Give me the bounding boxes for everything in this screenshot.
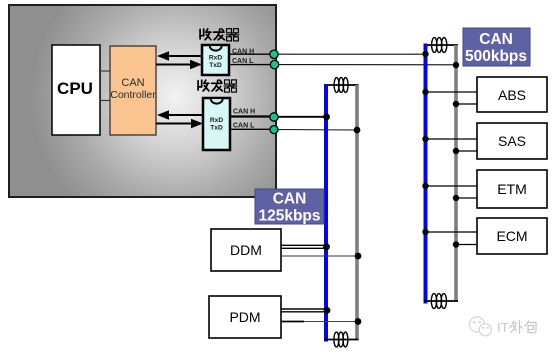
label CAN 125kbps: [255, 189, 324, 224]
svg-text:Controller: Controller: [110, 89, 156, 101]
label 收发器 (transceiver 1): [200, 29, 239, 41]
svg-text:125kbps: 125kbps: [258, 208, 320, 225]
junction SAS CANH on blue bus: [422, 136, 428, 142]
svg-text:ECM: ECM: [496, 228, 527, 244]
svg-text:500kbps: 500kbps: [465, 48, 527, 65]
connector dot green t2 CANL: [270, 126, 278, 134]
wire CANL t2 to 125k bus: [230, 128, 274, 130]
svg-text:RxD: RxD: [209, 55, 222, 62]
bus CAN_L 500k (gray): [454, 45, 458, 301]
wire ETM CANL: [456, 197, 477, 199]
wire DDM CANH (pair): [281, 244, 327, 246]
junction ETM CANL on gray bus: [453, 195, 459, 201]
connector dot green t2 CANH: [270, 113, 278, 121]
termination resistor RT1 (coil): [432, 38, 447, 53]
wire SAS CANL: [456, 150, 477, 152]
connector dot green t1 CANL: [270, 60, 278, 68]
label 收发器 (transceiver 2): [198, 80, 237, 92]
svg-text:CAN L: CAN L: [233, 122, 255, 129]
junction ABS CANH on blue bus: [422, 89, 428, 95]
ECU module box: [9, 5, 276, 197]
wire ECM CANL: [456, 244, 477, 246]
svg-text:CAN H: CAN H: [233, 108, 255, 115]
label CAN 500kbps: [463, 28, 530, 66]
node ETM: [477, 170, 547, 208]
wire TxD arrow to transceiver 1: [156, 60, 202, 70]
junction SAS CANL on gray bus: [453, 148, 459, 154]
junction ABS CANL on gray bus: [453, 101, 459, 107]
wire ECM CANH: [426, 231, 478, 233]
svg-text:CPU: CPU: [57, 79, 93, 98]
top rail 500k: [424, 44, 458, 46]
svg-text:CAN: CAN: [273, 191, 307, 208]
wire ABS CANH: [426, 91, 478, 93]
bottom rail 500k: [424, 300, 458, 302]
bottom rail 125k: [325, 339, 359, 341]
CAN controller U1: [110, 46, 156, 135]
node DDM: [211, 229, 281, 271]
svg-text:IT: IT: [497, 320, 509, 335]
svg-text:DDM: DDM: [230, 242, 262, 258]
bus CAN_H 500k (blue): [424, 44, 428, 304]
svg-text:ABS: ABS: [498, 87, 526, 103]
svg-text:RxD: RxD: [210, 117, 223, 124]
termination resistor RT3 (coil): [334, 78, 348, 93]
watermark logo: [469, 317, 491, 336]
wire DDM CANL: [281, 255, 358, 257]
transceiver 2: [203, 98, 230, 150]
top rail 125k: [325, 84, 359, 86]
junction t1 CANH on blue bus: [422, 51, 428, 57]
junction t1 CANL on gray bus: [453, 62, 459, 68]
svg-text:SAS: SAS: [498, 133, 526, 149]
wire ETM CANH: [426, 185, 478, 187]
junction ETM CANH on blue bus: [422, 183, 428, 189]
wire CANL t1 to 500k bus: [229, 64, 274, 66]
junction ECM CANH on blue bus: [422, 229, 428, 235]
connector dot green t1 CANH: [270, 50, 278, 58]
wire RxD arrow to controller (transceiver 2): [157, 110, 203, 120]
node ECM: [477, 218, 547, 254]
transceiver 1: [202, 45, 229, 75]
wire CPU-controller upper: [100, 70, 110, 72]
wire ABS CANL: [456, 103, 477, 105]
node ABS: [477, 77, 547, 112]
svg-text:CAN: CAN: [121, 77, 144, 89]
svg-text:TxD: TxD: [210, 125, 223, 132]
svg-text:TxD: TxD: [209, 62, 222, 69]
junction PDM CANH on blue bus: [324, 307, 331, 314]
junction PDM CANL on gray bus: [355, 318, 362, 325]
wire RxD arrow to controller (transceiver 1): [157, 51, 202, 61]
node SAS: [477, 123, 547, 159]
junction DDM CANH on blue bus: [323, 243, 330, 250]
wire PDM CANL: [281, 321, 304, 323]
wire CANH t1 to 500k bus: [229, 53, 274, 55]
termination resistor RT2 (coil): [431, 294, 446, 309]
wire PDM CANH (pair): [281, 308, 327, 310]
termination resistor RT4 (coil): [334, 332, 348, 347]
bus CAN_H 125k (blue): [324, 84, 328, 342]
wire CANH t2 to 125k bus: [230, 115, 274, 117]
wire CPU-controller lower: [100, 100, 110, 102]
junction t2 CANH on blue bus: [323, 113, 330, 120]
junction DDM CANL on gray bus: [355, 253, 362, 260]
node PDM: [209, 296, 281, 338]
svg-text:CAN: CAN: [479, 31, 513, 48]
junction t2 CANL on gray bus: [354, 127, 361, 134]
bus CAN_L 125k (gray): [355, 85, 359, 340]
wire TxD arrow to transceiver 2: [156, 119, 203, 129]
svg-text:ETM: ETM: [497, 181, 527, 197]
wire SAS CANH: [426, 138, 478, 140]
junction ECM CANL on gray bus: [453, 241, 459, 247]
CPU: [52, 45, 100, 135]
svg-text:PDM: PDM: [229, 309, 260, 325]
